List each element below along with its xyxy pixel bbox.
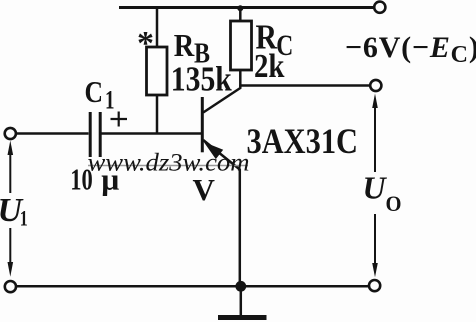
polarity plus of C1 [111, 112, 128, 127]
svg-text:U: U [363, 170, 388, 206]
capacitor C1 left plate [89, 112, 92, 157]
wire RB bottom [156, 95, 159, 134]
svg-text:135k: 135k [171, 60, 232, 99]
junction emitter-rail [235, 281, 246, 292]
wire C1 to base node [102, 132, 202, 135]
svg-text:1: 1 [20, 206, 28, 231]
capacitor C1 right plate [99, 112, 102, 157]
wire Uo lower [374, 214, 376, 266]
wire RC bottom [239, 70, 242, 87]
wire ground stub [240, 288, 243, 315]
wire Uo upper with arrow [374, 103, 376, 172]
arrow Uo top [372, 94, 378, 109]
terminal top-right supply [374, 2, 385, 13]
terminal input bottom [5, 281, 16, 292]
terminal output bottom [369, 280, 380, 291]
wire RB top [156, 7, 159, 48]
wire input to C1 [17, 132, 89, 135]
resistor RB [147, 47, 168, 95]
svg-text:R: R [174, 27, 195, 63]
terminal output top [370, 80, 381, 91]
wire RC top [239, 7, 242, 21]
svg-text:V: V [193, 172, 216, 207]
arrow U1 top [8, 141, 14, 156]
arrow U1 bottom [8, 262, 14, 277]
watermark [88, 150, 250, 177]
svg-text:1: 1 [105, 86, 115, 115]
wire bottom rail [17, 285, 369, 288]
svg-text:O: O [386, 191, 402, 216]
wire U1 lower [9, 228, 11, 266]
wire collector node to output terminal [240, 84, 370, 87]
arrow Uo bottom [372, 263, 378, 277]
transistor V collector lead [203, 86, 240, 113]
transistor V emitter lead [203, 140, 240, 287]
svg-text:2k: 2k [254, 48, 285, 85]
svg-text:C: C [85, 74, 104, 109]
svg-text:3AX31C: 3AX31C [247, 121, 359, 161]
transistor V base bar [201, 97, 204, 152]
svg-text:−6V(−EC): −6V(−EC) [345, 31, 476, 68]
ground [218, 315, 267, 320]
resistor RC [231, 21, 252, 70]
wire U1 upper [9, 149, 11, 193]
junction rail-RC [237, 5, 243, 11]
svg-text:*: * [137, 25, 154, 62]
transistor V emitter arrow (PNP) [204, 142, 223, 159]
svg-text:www.dz3w.com: www.dz3w.com [88, 150, 250, 177]
terminal input top-left [5, 128, 16, 139]
wire top supply rail [119, 6, 374, 9]
